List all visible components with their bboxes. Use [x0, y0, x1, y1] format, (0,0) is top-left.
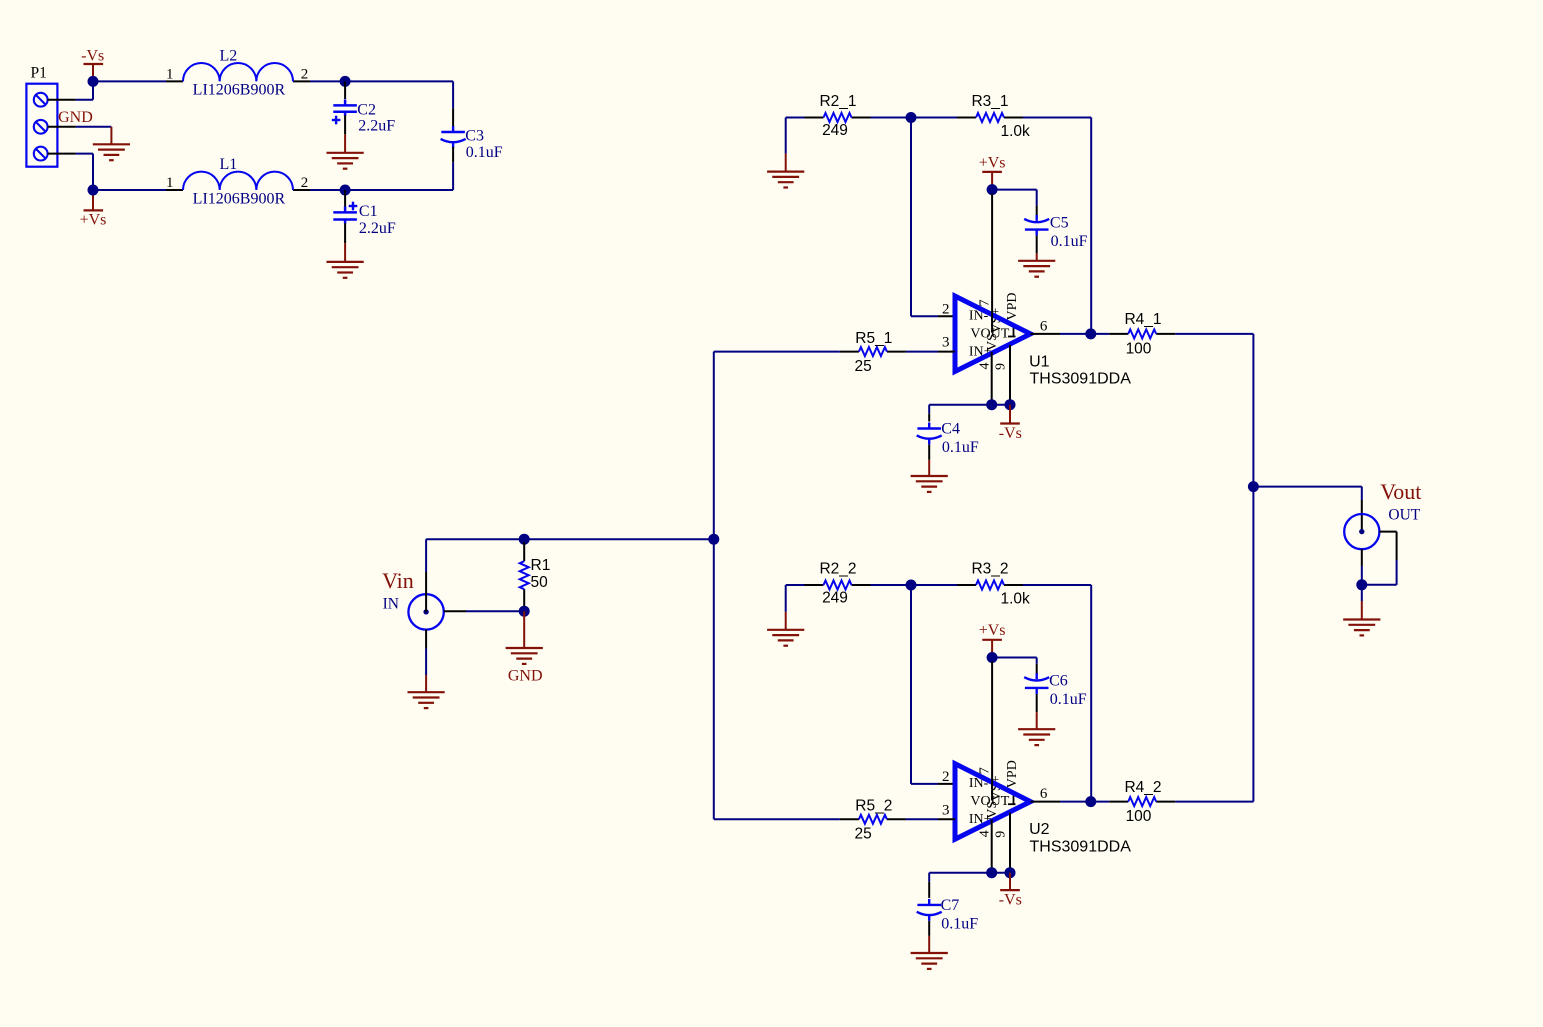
svg-text:C7: C7 — [941, 897, 960, 914]
svg-text:2.2uF: 2.2uF — [359, 220, 396, 237]
svg-text:L2: L2 — [220, 47, 238, 64]
svg-text:VPD: VPD — [1005, 760, 1020, 788]
svg-text:Vin: Vin — [382, 568, 414, 593]
svg-text:2: 2 — [301, 175, 309, 191]
svg-text:C1: C1 — [359, 203, 378, 220]
svg-text:7: 7 — [978, 767, 993, 774]
svg-text:VPD: VPD — [1005, 292, 1020, 320]
svg-text:9: 9 — [994, 363, 1009, 370]
svg-text:9: 9 — [994, 831, 1009, 838]
svg-text:+Vs: +Vs — [979, 154, 1006, 171]
svg-text:+Vs: +Vs — [979, 622, 1006, 639]
svg-text:U1: U1 — [1029, 353, 1050, 370]
svg-text:0.1uF: 0.1uF — [942, 439, 979, 456]
svg-text:LI1206B900R: LI1206B900R — [193, 82, 286, 99]
svg-text:OUT: OUT — [1388, 506, 1420, 523]
svg-text:GND: GND — [58, 109, 93, 126]
svg-text:1: 1 — [166, 66, 174, 82]
svg-text:6: 6 — [1040, 318, 1048, 334]
svg-text:-Vs: -Vs — [999, 892, 1022, 909]
svg-text:U2: U2 — [1029, 821, 1050, 838]
svg-text:249: 249 — [822, 122, 848, 139]
svg-text:50: 50 — [531, 574, 549, 591]
svg-text:1.0k: 1.0k — [1001, 591, 1031, 608]
svg-text:GND: GND — [508, 668, 543, 685]
svg-text:7: 7 — [978, 300, 993, 307]
svg-text:R4_1: R4_1 — [1124, 311, 1161, 328]
svg-text:R3_2: R3_2 — [971, 561, 1008, 578]
svg-text:+Vs: +Vs — [80, 212, 107, 229]
svg-text:R4_2: R4_2 — [1124, 779, 1161, 796]
svg-text:249: 249 — [822, 590, 848, 607]
svg-text:2: 2 — [301, 66, 309, 82]
svg-text:R2_2: R2_2 — [819, 561, 856, 578]
svg-text:-Vs: -Vs — [999, 425, 1022, 442]
svg-text:-Vs: -Vs — [81, 47, 104, 64]
svg-text:4: 4 — [978, 830, 993, 837]
svg-text:100: 100 — [1126, 808, 1152, 825]
svg-text:2.2uF: 2.2uF — [358, 117, 395, 134]
svg-text:C5: C5 — [1050, 214, 1069, 231]
svg-text:THS3091DDA: THS3091DDA — [1030, 838, 1132, 855]
svg-text:Vout: Vout — [1380, 479, 1421, 504]
svg-text:0.1uF: 0.1uF — [941, 915, 978, 932]
svg-text:R2_1: R2_1 — [819, 93, 856, 110]
svg-text:R3_1: R3_1 — [971, 93, 1008, 110]
svg-text:2: 2 — [942, 769, 950, 785]
svg-text:R5_2: R5_2 — [855, 798, 892, 815]
svg-text:C4: C4 — [941, 421, 960, 438]
svg-text:25: 25 — [854, 826, 871, 843]
svg-text:0.1uF: 0.1uF — [1050, 691, 1087, 708]
svg-text:100: 100 — [1126, 340, 1152, 357]
svg-text:C6: C6 — [1049, 673, 1068, 690]
svg-text:25: 25 — [854, 358, 871, 375]
svg-text:6: 6 — [1040, 786, 1048, 802]
svg-text:0.1uF: 0.1uF — [466, 144, 503, 161]
svg-text:1: 1 — [166, 175, 174, 191]
svg-text:C3: C3 — [465, 128, 484, 145]
svg-text:3: 3 — [942, 335, 950, 351]
svg-text:L1: L1 — [220, 156, 238, 173]
svg-text:P1: P1 — [31, 65, 47, 82]
svg-text:0.1uF: 0.1uF — [1051, 233, 1088, 250]
svg-text:THS3091DDA: THS3091DDA — [1030, 371, 1132, 388]
svg-text:LI1206B900R: LI1206B900R — [193, 191, 286, 208]
svg-text:2: 2 — [942, 301, 950, 317]
svg-text:3: 3 — [942, 802, 950, 818]
svg-text:4: 4 — [978, 363, 993, 370]
svg-text:IN: IN — [383, 596, 399, 613]
svg-text:C2: C2 — [357, 101, 376, 118]
svg-text:1.0k: 1.0k — [1001, 123, 1031, 140]
svg-text:R5_1: R5_1 — [855, 330, 892, 347]
svg-text:R1: R1 — [531, 557, 551, 574]
